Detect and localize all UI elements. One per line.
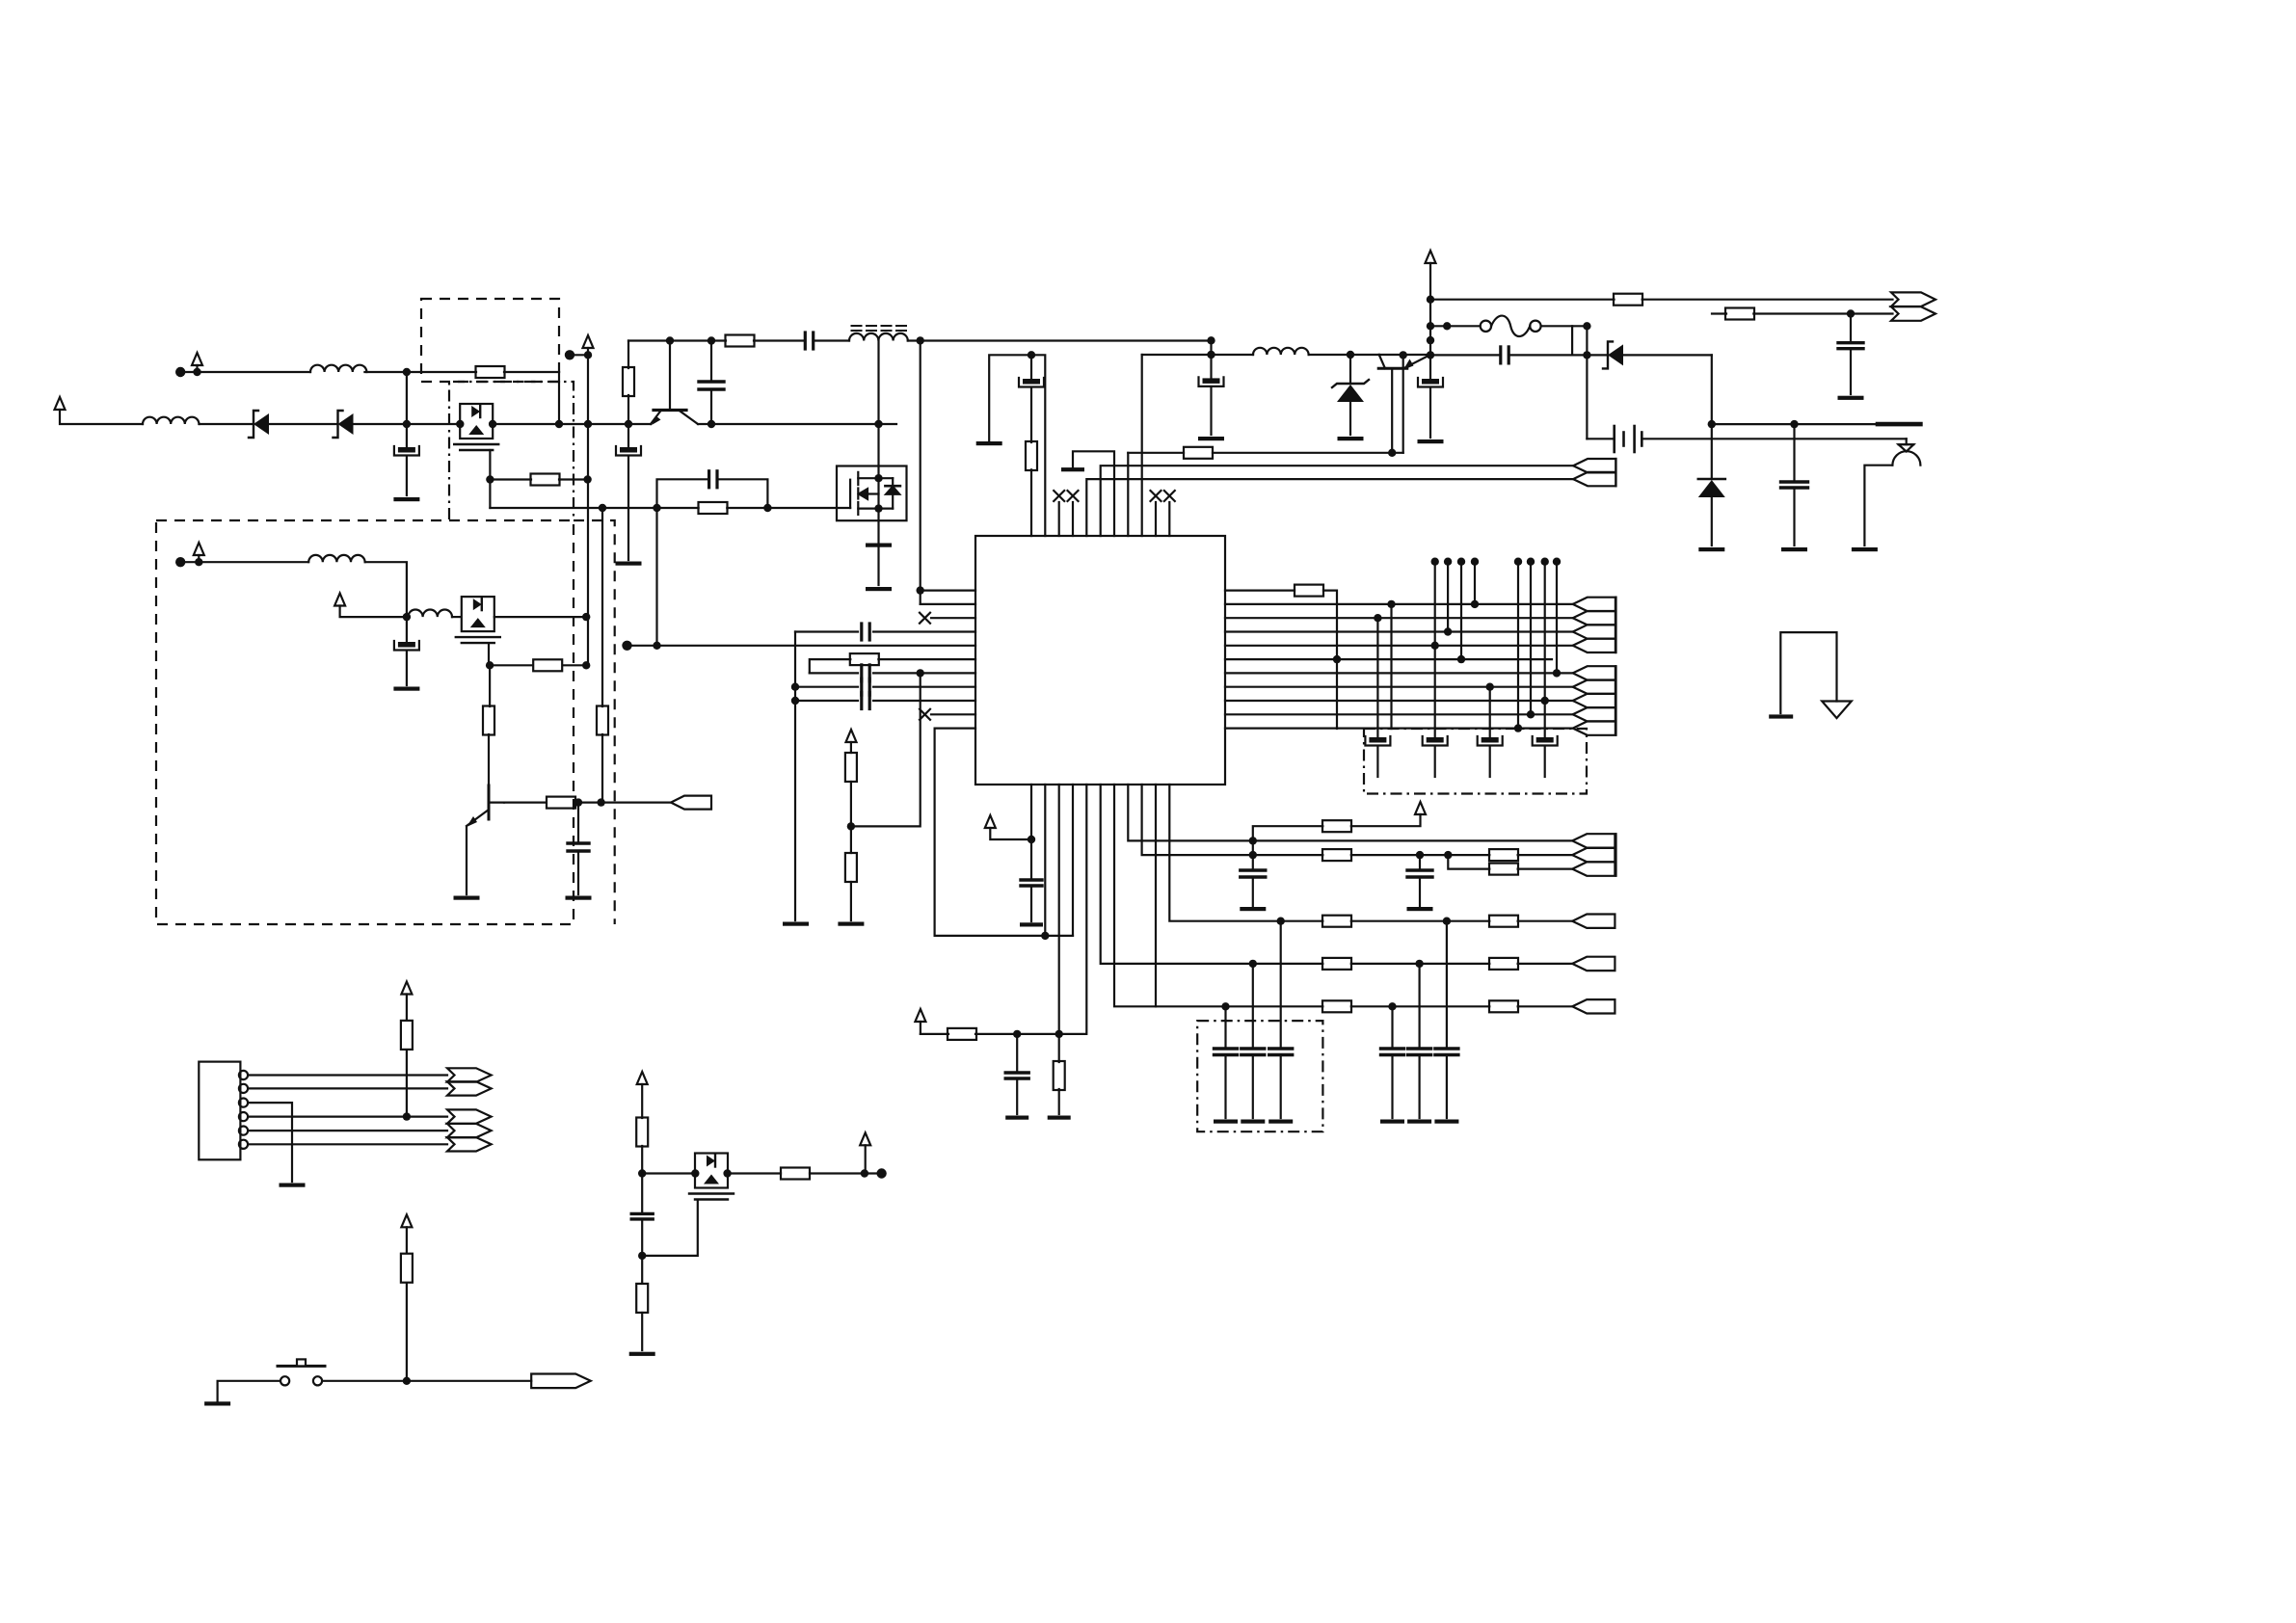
wire [1446, 1055, 1448, 1119]
wire stub [1530, 562, 1532, 715]
node AC [1388, 449, 1396, 457]
wire [1864, 466, 1892, 545]
nc mark [1068, 491, 1079, 501]
wire T5 [1086, 479, 1573, 536]
wire [269, 423, 337, 425]
wire L11 [935, 729, 1073, 936]
wire [1128, 452, 1184, 454]
wire [406, 617, 408, 642]
wire [322, 1380, 531, 1382]
node G1 [486, 475, 494, 483]
wire [577, 801, 671, 803]
wire [587, 348, 589, 355]
resistor R15 [1295, 585, 1323, 597]
node N [1207, 336, 1215, 344]
node M3e [876, 1168, 886, 1178]
wire [1309, 354, 1379, 356]
transistor Q3 [467, 781, 504, 827]
wire [1224, 1006, 1226, 1049]
node stub [1444, 558, 1452, 566]
inductor T1 primary [849, 333, 908, 341]
capacitor C6 [568, 843, 589, 851]
wire [1419, 877, 1421, 906]
wire row1 [1253, 839, 1572, 841]
wire [559, 423, 588, 425]
wire [1518, 920, 1573, 922]
wire [1252, 840, 1254, 870]
wire [587, 355, 589, 665]
capacitor C15 [862, 693, 869, 709]
wire [1544, 747, 1546, 777]
wire [1429, 263, 1431, 355]
node M3f [638, 1252, 646, 1260]
wire [1418, 964, 1420, 1049]
capacitor C17 [1005, 1073, 1028, 1078]
capacitor trio [1215, 1049, 1238, 1055]
connector pin [239, 1112, 248, 1121]
node R3a [1374, 614, 1381, 622]
wire [1434, 747, 1436, 777]
wire B1 [1030, 785, 1032, 880]
wire [1351, 1005, 1490, 1007]
IC U1 [975, 536, 1225, 785]
node AA [1708, 420, 1716, 428]
wire T9 [1141, 355, 1143, 536]
resistor R25 [1489, 958, 1518, 970]
connector arrow C3 [1573, 694, 1615, 707]
wire J1p6 [248, 1143, 447, 1145]
node L11a [1041, 932, 1049, 940]
pushbutton SW1 [278, 1359, 325, 1385]
resistor R34 [699, 502, 728, 514]
resistor R21 [1489, 864, 1518, 875]
wire T8 [1127, 453, 1129, 536]
wire [601, 734, 603, 803]
wire [365, 562, 407, 617]
nc mark [1054, 491, 1064, 501]
box caps (dash-dot) [1364, 729, 1587, 794]
capacitor C11 [1199, 377, 1224, 386]
connector arrow D1 [1572, 834, 1615, 847]
connector arrow A2 [1891, 292, 1936, 306]
node V [1847, 309, 1855, 317]
wire [710, 389, 712, 424]
node L1 [917, 586, 924, 594]
wire [1058, 1034, 1060, 1062]
connector arrow D2 [1572, 848, 1615, 862]
power flag P6 [1426, 251, 1436, 263]
wire [1142, 354, 1253, 356]
resistor R3 [623, 367, 634, 396]
ground [280, 1184, 306, 1187]
node stub [1541, 558, 1549, 566]
wire [1058, 1089, 1060, 1114]
node BB2 [1055, 1030, 1063, 1038]
wire [908, 339, 1212, 341]
node H [625, 420, 632, 428]
capacitor bank [1533, 736, 1558, 746]
wire J1p5 [248, 1130, 447, 1131]
node T1 [1028, 351, 1035, 359]
wire [1349, 355, 1351, 384]
wire [588, 423, 651, 425]
node AB [1790, 420, 1798, 428]
wire [1351, 920, 1490, 922]
node stub [1471, 558, 1479, 566]
diode D5 [1698, 479, 1725, 497]
capacitor C8 [1501, 347, 1508, 363]
connector arrow C1 [1573, 666, 1615, 679]
node R11a [1514, 724, 1522, 732]
wire R3 [1225, 617, 1573, 619]
node M4b [874, 504, 882, 512]
power flag P10 [1415, 802, 1426, 814]
power flag P13 [637, 1072, 648, 1084]
capacitor bank [1365, 736, 1390, 746]
wire R10 [1225, 713, 1573, 715]
wire [1376, 747, 1378, 777]
ground [1418, 439, 1444, 443]
wire [1168, 502, 1170, 536]
resistor R19 [1322, 849, 1351, 861]
ground [1407, 907, 1433, 911]
node Y [1207, 351, 1215, 359]
ground [838, 922, 864, 926]
wire B10 [1155, 785, 1157, 1006]
wire R8 [1225, 686, 1573, 688]
resistor R8 [1614, 294, 1642, 306]
resistor R28 [401, 1021, 413, 1050]
box filter1 (dashed) [421, 299, 559, 382]
connector arrow E5 [447, 1137, 492, 1151]
transistor M2 [456, 597, 500, 643]
wire [1429, 388, 1431, 438]
wire [810, 1172, 882, 1174]
wire [180, 561, 308, 563]
capacitor trio [1241, 1049, 1265, 1055]
wire [921, 1033, 948, 1035]
wire [504, 371, 559, 373]
wire [873, 630, 975, 632]
wire stub [1434, 562, 1436, 646]
wire B7 [1114, 785, 1226, 1006]
ground [616, 562, 642, 566]
wire [1711, 497, 1713, 545]
connector arrow E2 [447, 1081, 492, 1095]
transistor M4 [850, 472, 900, 515]
wire [641, 1256, 643, 1284]
wire [364, 371, 407, 373]
node M3c [723, 1169, 731, 1177]
node G3 [653, 504, 660, 512]
ground [1698, 547, 1724, 551]
nc mark [1151, 491, 1161, 501]
wire [1323, 591, 1337, 729]
wire [641, 1084, 643, 1118]
capacitor trio2 [1435, 1049, 1458, 1055]
capacitor C13 [862, 665, 869, 681]
wire T6 [1101, 466, 1573, 536]
wire R11 [1225, 727, 1573, 729]
power flag P11 [401, 982, 412, 995]
wire [490, 664, 531, 666]
wire [198, 555, 200, 562]
wire [1753, 312, 1892, 314]
wire [1544, 701, 1546, 737]
resistor R5 [483, 706, 494, 735]
connector pin [239, 1071, 248, 1079]
wire [1430, 299, 1615, 301]
wire [920, 340, 921, 604]
wire [406, 424, 408, 447]
node R5a [1431, 642, 1439, 650]
capacitor C16 [1021, 880, 1042, 886]
node row5a [1221, 1002, 1229, 1010]
ground [204, 1401, 230, 1405]
capacitor trio [1269, 1049, 1293, 1055]
spark gap GD1 [1892, 439, 1920, 465]
wire J1p1 [248, 1074, 447, 1076]
node Q [486, 661, 494, 669]
zener D4 [1603, 341, 1623, 368]
resistor R32 [636, 1284, 648, 1313]
ground [393, 497, 419, 501]
resistor R6 [597, 706, 608, 735]
node B1a [1028, 836, 1035, 843]
inductor L1 [143, 417, 199, 424]
ground [1005, 1116, 1028, 1120]
ground [393, 687, 419, 691]
connector arrow C4 [1573, 707, 1615, 721]
wire row2 branch [1448, 855, 1489, 869]
wire L3 [931, 617, 975, 619]
wire [200, 423, 254, 425]
wire [1280, 1055, 1282, 1119]
wire [1280, 921, 1282, 1049]
power flag P2 [192, 353, 202, 365]
wire stub [1474, 562, 1476, 604]
node M3b [691, 1169, 699, 1177]
wire [1402, 355, 1404, 452]
resistor R10 [1026, 441, 1037, 470]
wire [920, 1022, 921, 1034]
connector arrow E3 [447, 1109, 492, 1123]
connector J1 [199, 1062, 240, 1160]
wire RC top [657, 479, 707, 508]
wire stub [1544, 562, 1546, 701]
wire [489, 450, 491, 508]
ground [454, 896, 480, 900]
wire [1429, 355, 1431, 379]
wire [641, 1146, 643, 1213]
wire M3 gate [642, 1200, 698, 1256]
node stub [1431, 558, 1439, 566]
wire [1489, 747, 1491, 777]
connector arrow D4 [1572, 915, 1615, 928]
node W [1443, 322, 1451, 330]
wire [873, 700, 975, 702]
node BTN [403, 1377, 411, 1385]
connector pin [239, 1099, 248, 1107]
wire row5 [1226, 1005, 1323, 1007]
resistor R23 [1489, 916, 1518, 927]
wire [1615, 666, 1616, 735]
wire [1016, 1078, 1018, 1114]
wire [727, 507, 850, 509]
wire [627, 395, 629, 424]
capacitor bank [1423, 736, 1448, 746]
wire [710, 341, 712, 383]
resistor R18 [1322, 820, 1351, 832]
capacitor C14 [862, 678, 869, 695]
wire [810, 659, 851, 673]
wire stub [1460, 562, 1462, 659]
nc mark [920, 613, 930, 624]
connector arrow A5 [1573, 472, 1615, 486]
connector arrow D5 [1572, 957, 1615, 971]
wire J1p4 [248, 1115, 447, 1117]
power flag P12 [401, 1214, 412, 1227]
node Z [1347, 351, 1354, 359]
wire T1 [989, 355, 1045, 536]
wire stub [1447, 562, 1449, 632]
node R9a [1541, 697, 1549, 705]
wire [1419, 855, 1421, 870]
wire [564, 664, 586, 666]
capacitor trio2 [1408, 1049, 1431, 1055]
node U2 [1427, 322, 1434, 330]
node U3 [1427, 336, 1434, 344]
capacitor C5 [394, 641, 419, 651]
node row2b [1416, 851, 1424, 859]
wire [1030, 886, 1032, 921]
wire L6 [878, 658, 975, 660]
ground [566, 896, 592, 900]
wire [1518, 1005, 1573, 1007]
resistor R9 [1725, 308, 1754, 320]
wire L10 [931, 713, 975, 715]
wire [1446, 921, 1448, 1049]
connector arrow B4 [1573, 639, 1615, 652]
wire [1434, 646, 1436, 737]
wire L8 [795, 686, 858, 688]
node U1 [1427, 296, 1434, 304]
wire [406, 652, 408, 685]
capacitor C1 [394, 446, 419, 456]
node D [584, 420, 592, 428]
wire [1541, 325, 1588, 327]
node B [555, 420, 563, 428]
wire [488, 643, 490, 665]
connector pin [239, 1140, 248, 1149]
capacitor trio2 [1381, 1049, 1404, 1055]
wire R4 [1225, 630, 1573, 632]
wire B3 [1058, 785, 1060, 1034]
power flag P9 [915, 1009, 925, 1022]
node M1d [456, 420, 464, 428]
wire [406, 1227, 408, 1253]
box input2 partition (dashed) [574, 520, 615, 924]
wire [1072, 502, 1074, 536]
wire [873, 686, 975, 688]
ground [1434, 1120, 1458, 1124]
node L8 [791, 683, 799, 691]
wire [1850, 314, 1852, 343]
ground [866, 544, 892, 547]
connector arrow B3 [1573, 625, 1615, 638]
ground [1240, 907, 1266, 911]
node A [403, 368, 411, 376]
wire [1376, 618, 1378, 737]
resistor R7 [547, 797, 575, 809]
connector arrow B1 [1573, 598, 1615, 611]
wire B8 [1128, 785, 1253, 840]
wire [1712, 423, 1878, 425]
wire R7 [1225, 672, 1573, 674]
capacitor C2 [616, 446, 641, 456]
wire [627, 341, 629, 369]
inductor L3 [308, 555, 364, 562]
ground [1268, 1120, 1293, 1124]
wire R6 [1225, 658, 1552, 660]
box M4 [837, 466, 907, 521]
wire [850, 782, 852, 826]
node J1p4 [403, 1112, 411, 1120]
node stub [1514, 558, 1522, 566]
wire [218, 1381, 280, 1401]
box input2 (dashed) [156, 520, 574, 924]
wire L9 [795, 700, 858, 702]
wire [1210, 340, 1212, 355]
power flag P8 [985, 815, 996, 828]
connector arrow E6 [531, 1374, 591, 1389]
legend wire [1780, 632, 1836, 713]
wire R5 [1225, 645, 1573, 647]
node row3a [1277, 918, 1285, 925]
inductor L4 [408, 610, 452, 618]
resistor R1 [476, 366, 505, 378]
wire [407, 616, 409, 618]
wire [1518, 854, 1573, 856]
resistor R31 [781, 1168, 810, 1180]
wire stub [1517, 562, 1519, 729]
node IN3 dot2 [195, 558, 202, 566]
wire [990, 828, 1031, 839]
wire [406, 457, 408, 495]
wire [627, 424, 629, 447]
connector arrow E1 [447, 1068, 492, 1081]
wire [488, 734, 490, 785]
wire [1351, 814, 1421, 826]
wire [1430, 325, 1481, 327]
wire L5 [627, 645, 976, 647]
resistor R14 [845, 853, 857, 882]
ground [1020, 922, 1043, 926]
node F2 [584, 351, 592, 359]
node IN2 dot2 [193, 368, 200, 376]
wire [196, 365, 198, 372]
wire [60, 410, 143, 424]
wire [642, 1172, 695, 1174]
wire Q2 base [1391, 368, 1393, 453]
node M [917, 336, 924, 344]
wire [406, 1283, 408, 1381]
wire [406, 1050, 408, 1116]
wire [1030, 469, 1032, 536]
wire B2 [1044, 785, 1046, 936]
transformer core marks [852, 326, 907, 331]
capacitor C9 [1781, 482, 1808, 488]
